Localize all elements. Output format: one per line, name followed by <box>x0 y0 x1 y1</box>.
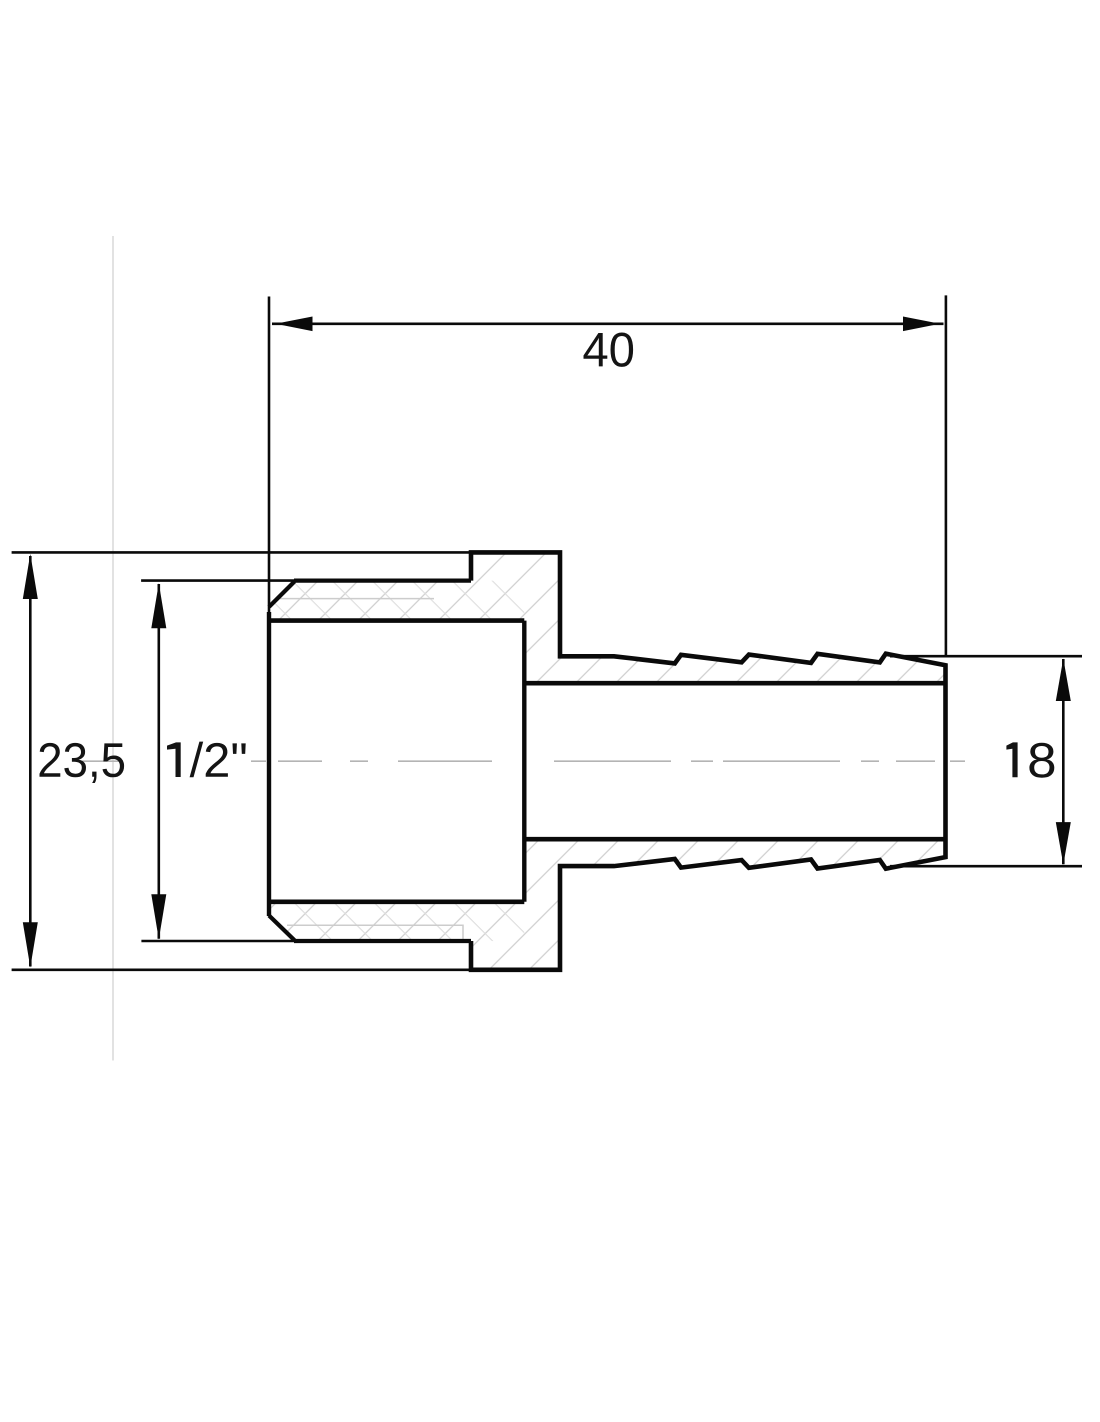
arrow 1/2 top <box>151 583 166 628</box>
dimension line 23,5 <box>29 556 32 967</box>
extension line 40 left <box>268 297 271 621</box>
dimension text 40 <box>584 333 634 367</box>
faint thread detail line bottom <box>287 925 463 940</box>
thread zone cross hatch top <box>269 581 524 621</box>
thread chamfer top <box>269 582 295 607</box>
arrow 23,5 bottom <box>23 922 38 967</box>
arrow 23,5 top <box>23 554 38 599</box>
center line <box>78 760 965 762</box>
extension line 18 bottom <box>890 865 1082 868</box>
thread crest line top <box>294 578 471 582</box>
thread bore top <box>267 618 524 623</box>
thread bore end face <box>522 621 526 902</box>
hatch fill: top material region <box>269 552 946 683</box>
barb bore top <box>524 681 946 686</box>
dimension line 1/2 <box>158 584 161 939</box>
arrow 18 top <box>1056 659 1071 702</box>
dimension text 18 <box>1006 742 1054 777</box>
faint vertical construction line <box>112 236 114 1061</box>
extension line 23,5 bottom <box>12 968 471 971</box>
dimension text 1/2" <box>167 742 246 778</box>
extension line 23,5 top <box>12 551 471 554</box>
arrow 1/2 bottom <box>151 894 166 939</box>
dimension line 18 <box>1062 659 1065 864</box>
thread bore bottom <box>267 899 524 904</box>
thread crest line bottom <box>294 939 471 943</box>
extension line 1/2 top <box>141 579 295 582</box>
hatch fill: bottom material region <box>269 839 946 970</box>
extension line 18 top <box>890 655 1082 658</box>
arrow 18 bottom <box>1056 822 1071 865</box>
left face <box>267 612 271 916</box>
dimension line 40 <box>272 322 944 325</box>
arrow 40 right <box>903 317 940 332</box>
extension line 1/2 bottom <box>141 940 295 943</box>
barb bore bottom <box>524 837 946 842</box>
thread chamfer bottom <box>269 916 295 941</box>
arrow 40 left <box>276 317 313 332</box>
part outer outline <box>471 552 946 969</box>
faint thread detail line top <box>280 598 434 600</box>
dimension text 23,5 <box>40 743 125 783</box>
thread zone cross hatch bottom <box>269 902 524 941</box>
extension line 40 right <box>945 295 948 656</box>
